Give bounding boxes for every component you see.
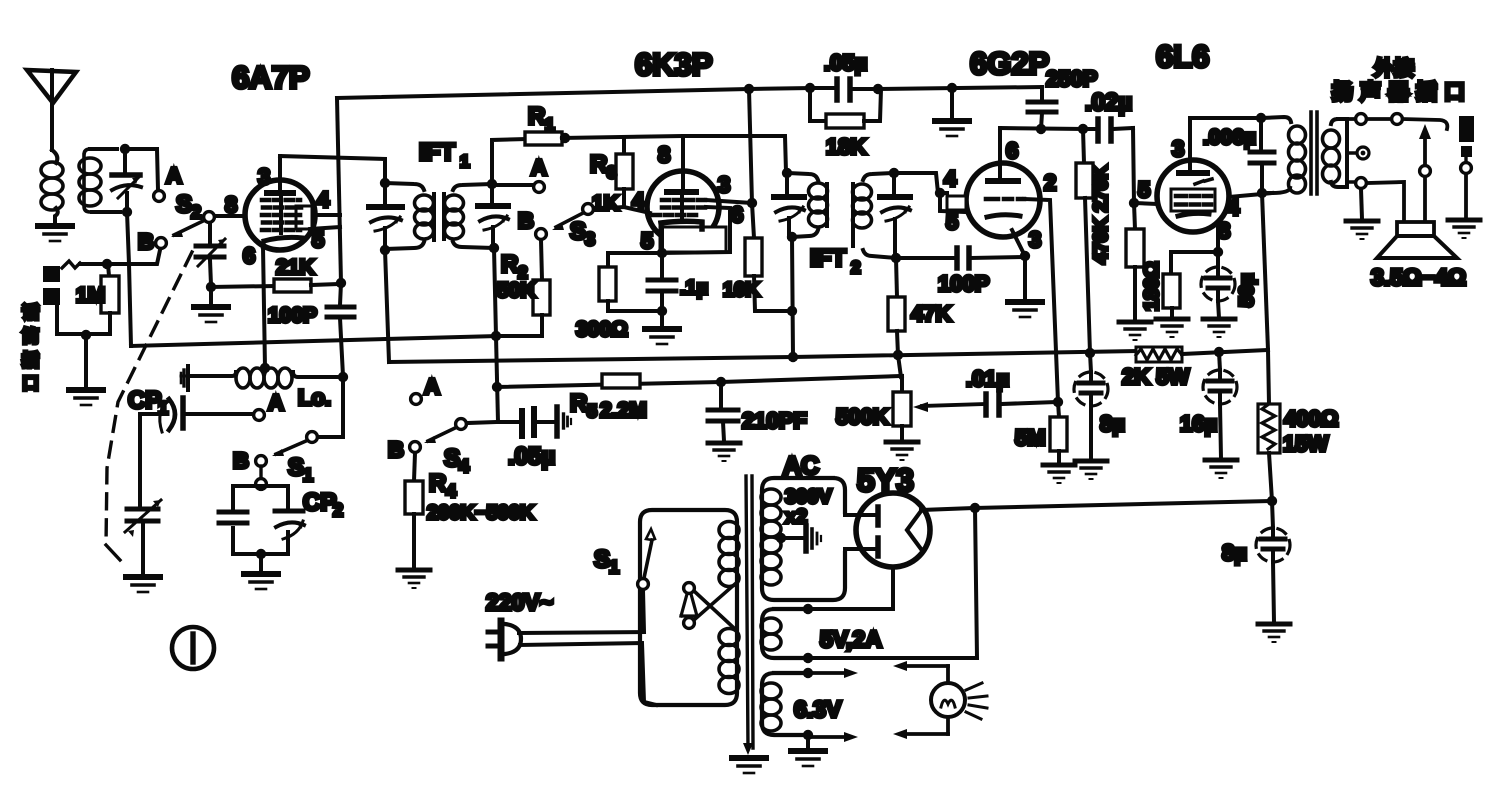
svg-text:3: 3 — [1029, 227, 1041, 252]
svg-text:500K: 500K — [836, 404, 889, 429]
phone jack — [43, 266, 60, 305]
svg-text:S: S — [288, 454, 304, 481]
jack terminal 1 — [1356, 114, 1367, 125]
resistor 47K — [888, 258, 951, 355]
wire B to R2 — [541, 240, 542, 280]
wire pin3 up to .006u node — [1190, 118, 1261, 172]
wire pin2 diode drop — [1024, 199, 1058, 402]
wire HV top to 5Y3 plate1 — [845, 513, 875, 517]
node: B+ takeoff — [970, 503, 980, 513]
ground (CP2) — [244, 554, 278, 589]
wire pin6 to grid line — [998, 128, 1002, 180]
capacitor .006u — [1203, 118, 1274, 193]
node: 10K foot / IFT2 B+ — [787, 306, 797, 316]
switch S2 — [171, 191, 214, 237]
wire coil bottom down to AVC bus — [127, 212, 131, 346]
node IFT2 primary top — [782, 168, 792, 178]
node: AVC / R2 junction — [491, 331, 501, 341]
svg-text:插: 插 — [22, 351, 39, 370]
IFT1 secondary coil — [445, 195, 464, 239]
node: pin3 — [1020, 251, 1030, 261]
ground (180R) — [1156, 319, 1188, 337]
resistor 300R — [576, 253, 662, 341]
node: 6L6 grid — [1129, 198, 1139, 208]
capacitor 8u (screen filter) — [1074, 353, 1125, 459]
wire B+ drop from top bus through pins 4,5 to 21K node — [337, 98, 341, 283]
wire A to IFT1 top — [497, 183, 533, 187]
wire 2K to 400R corner — [1182, 350, 1268, 354]
resistor 21K — [274, 256, 340, 292]
svg-text:300V: 300V — [785, 486, 832, 508]
svg-text:2: 2 — [851, 258, 860, 277]
IFT2 primary tuning cap — [774, 173, 804, 237]
wire B+ to filter — [975, 501, 1272, 508]
terminal B (osc) — [256, 456, 267, 467]
wire AVC node down to S4 — [496, 336, 498, 422]
trimmer pair top terminal — [256, 466, 267, 489]
svg-text:B: B — [388, 437, 404, 462]
svg-text:3: 3 — [607, 163, 616, 182]
svg-text:6: 6 — [731, 202, 743, 227]
tube 6G2P envelope — [966, 163, 1040, 237]
capacitor .05u (coupling, top) — [810, 50, 878, 100]
svg-text:外接: 外接 — [1374, 57, 1414, 80]
symbol circled 1 — [172, 627, 214, 669]
svg-text:S: S — [570, 218, 586, 245]
node: 400R foot / B+ raw — [1267, 496, 1277, 506]
svg-text:6: 6 — [243, 243, 255, 268]
antenna coil L1 — [41, 150, 63, 224]
tube 6G2P internals — [947, 166, 1024, 217]
node: 1M top — [102, 259, 112, 269]
resistor 270K — [1076, 129, 1093, 353]
svg-text:6A7P: 6A7P — [232, 60, 310, 95]
HV secondary frame — [762, 478, 845, 600]
ground (5M) — [1043, 465, 1075, 483]
node: .02u left — [1078, 124, 1088, 134]
svg-text:250P: 250P — [1046, 66, 1097, 91]
mains plug — [488, 621, 521, 658]
capacitor 250P — [1028, 66, 1097, 129]
wire top bus (6A7P to 18K) — [337, 88, 810, 98]
svg-text:3: 3 — [585, 229, 595, 249]
terminal B (AF input) — [410, 442, 421, 453]
output transformer secondary — [1323, 119, 1357, 187]
wire IFT2 primary bottom to B+ bus — [792, 237, 793, 357]
wire CP1 to gang2 — [140, 414, 162, 506]
speaker plug arrow — [1419, 124, 1431, 222]
svg-text:5M: 5M — [1015, 425, 1046, 450]
center tap terminal — [1357, 147, 1369, 159]
svg-text:5: 5 — [1138, 177, 1150, 202]
detector bus (bus-3) — [497, 376, 902, 387]
ground (R4) — [398, 570, 430, 588]
wire 6L6 cathode pin8 — [1216, 228, 1220, 252]
svg-text:4: 4 — [632, 188, 645, 213]
svg-text:CP: CP — [303, 489, 336, 516]
wire IFT2 top to 6G2P grid — [894, 173, 947, 193]
resistor 470K — [1126, 203, 1144, 321]
svg-text:3: 3 — [1172, 136, 1184, 161]
node: 210PF top — [716, 377, 726, 387]
wire S2 to 6A7P pin 8 — [215, 214, 245, 218]
node: 6.3V top — [803, 668, 813, 678]
node: R1 right — [560, 133, 570, 143]
ground (500K) — [886, 442, 918, 460]
svg-text:6: 6 — [1006, 138, 1018, 163]
oscillator gang capacitor under S2 — [196, 223, 225, 285]
HV winding — [761, 489, 781, 585]
wire pin3 to IFT1 primary top — [280, 156, 385, 183]
svg-text:4: 4 — [944, 166, 957, 191]
svg-text:50µ: 50µ — [1236, 273, 1258, 307]
5V winding frame — [762, 609, 808, 658]
tube 6K3P envelope — [647, 171, 719, 243]
node: 6G2P grid — [935, 188, 945, 198]
resistor R5 2.2M — [570, 374, 647, 422]
node: 18K right — [873, 84, 883, 94]
node: CP2 bottom — [256, 549, 266, 559]
node IFT2 secondary top — [889, 168, 899, 178]
resistor 180R — [1141, 252, 1218, 318]
wire R1 node to 6K3P pin8 line — [562, 136, 786, 172]
svg-text:1: 1 — [545, 115, 554, 134]
wire IFT1 primary bottom to B+ bus — [385, 250, 389, 362]
speaker jack top wire — [1347, 119, 1447, 129]
capacitor .1u — [648, 253, 708, 327]
svg-text:2K 5W: 2K 5W — [1122, 364, 1189, 389]
main tuning gang section (RF) — [112, 149, 141, 212]
wire plug to S1 — [519, 590, 644, 633]
antenna — [27, 70, 76, 150]
capacitor CP2 (trimmer) — [275, 489, 343, 539]
svg-text:2: 2 — [1044, 170, 1056, 195]
IFT2 secondary frame — [853, 173, 896, 258]
svg-text:R: R — [501, 251, 518, 278]
tube 6K3P internals — [653, 136, 726, 252]
ground (secondary bottom) — [1346, 189, 1378, 239]
capacitor 100P (diode) — [896, 248, 1025, 296]
svg-text:47K: 47K — [911, 301, 951, 326]
node: osc gang / 21K junction — [206, 282, 216, 292]
power transformer primary frame — [640, 510, 737, 705]
tube 6L6 internals — [1171, 160, 1215, 216]
node IFT1 secondary top — [487, 179, 497, 189]
svg-text:A: A — [268, 390, 284, 415]
wire jack tip row to terminal B / AVC — [80, 250, 160, 264]
6.3V winding — [761, 683, 781, 731]
speaker — [1377, 222, 1457, 258]
wire to terminal A1 — [125, 149, 158, 190]
wire pin 6 down to Lo — [263, 247, 265, 368]
node IFT2 primary bottom — [787, 232, 797, 242]
svg-text:1M: 1M — [76, 284, 105, 307]
IFT1 primary frame — [385, 183, 434, 249]
IFT1 primary tuning cap — [369, 183, 402, 250]
node: coil top junction — [120, 144, 130, 154]
wire pin4 to OPT bottom — [1229, 193, 1272, 197]
ground (antenna coil) — [38, 226, 72, 241]
terminal B (IF) — [536, 229, 547, 240]
svg-text:5V,2A: 5V,2A — [820, 626, 882, 652]
primary lower winding — [719, 629, 739, 694]
pilot lamp — [931, 666, 987, 734]
ground (470K) — [1119, 322, 1151, 340]
node IFT1 primary top — [380, 178, 390, 188]
node: 5V bottom — [803, 653, 813, 663]
svg-text:1: 1 — [303, 465, 313, 485]
svg-text:S: S — [594, 546, 610, 573]
svg-text:Lo.: Lo. — [298, 385, 331, 410]
svg-text:口: 口 — [22, 374, 39, 393]
transformer core — [743, 476, 753, 755]
ground (phone plug) — [1448, 220, 1480, 238]
node: .006u top — [1256, 113, 1266, 123]
svg-text:S: S — [176, 191, 192, 218]
svg-text:470K 270K: 470K 270K — [1090, 165, 1112, 264]
svg-text:100P: 100P — [938, 271, 989, 296]
svg-text:.01µ: .01µ — [966, 366, 1009, 391]
svg-text:R: R — [528, 103, 545, 130]
phone plug symbol — [1459, 116, 1474, 218]
ground (jack/1M) — [69, 335, 103, 405]
switch S1 (mains) — [594, 529, 655, 589]
IFT1 primary coil — [415, 195, 434, 239]
ground (6K3P cathode) — [645, 329, 679, 344]
svg-text:1: 1 — [609, 557, 619, 577]
node: pin3 / screen node — [747, 198, 757, 208]
svg-text:5: 5 — [946, 209, 958, 234]
wire S4 to .05u node — [467, 422, 498, 423]
svg-text:4: 4 — [459, 456, 469, 476]
wire IFT1 sec bottom to AVC node — [494, 248, 496, 336]
svg-text:6.3V: 6.3V — [794, 696, 842, 722]
ground (core) — [732, 758, 766, 773]
grid stub — [940, 193, 966, 212]
node: OPT primary bottom — [1257, 188, 1267, 198]
ground (8u main) — [1258, 624, 1290, 642]
resistor R1 — [525, 103, 562, 145]
wiper arrow with .01u — [913, 366, 1058, 415]
svg-text:5: 5 — [641, 228, 653, 253]
svg-text:IFT: IFT — [810, 245, 846, 272]
svg-text:.1µ: .1µ — [680, 277, 708, 299]
svg-text:220V~: 220V~ — [486, 589, 553, 615]
svg-text:100P: 100P — [268, 304, 317, 327]
svg-text:A: A — [531, 155, 547, 180]
svg-text:2: 2 — [333, 500, 343, 520]
capacitor 50u electrolytic — [1201, 252, 1258, 318]
svg-text:5: 5 — [587, 401, 597, 421]
svg-text:A: A — [424, 374, 440, 399]
node: cathode 6L6 — [1213, 247, 1223, 257]
IFT2 secondary coil — [853, 184, 872, 228]
svg-text:.006µ: .006µ — [1203, 126, 1256, 149]
wire AVC bus (bus-1 left) — [131, 336, 496, 346]
main tuning gang section (osc) — [125, 500, 161, 575]
node: 18K left — [805, 83, 815, 93]
IFT2 primary coil — [809, 183, 828, 227]
terminal A (osc) — [254, 410, 265, 421]
svg-text:CP: CP — [128, 387, 161, 414]
wire pin 5 — [310, 227, 340, 229]
wire pin6 loop to cathode — [662, 207, 730, 253]
IFT2 secondary tuning cap — [880, 173, 910, 258]
wire jack3 to speaker — [1367, 182, 1404, 222]
svg-text:IFT: IFT — [419, 139, 455, 166]
output transformer primary — [1261, 117, 1306, 193]
node: cathode RC bottom — [657, 306, 667, 316]
wire grid line (250P row) — [1000, 128, 1083, 129]
svg-text:16µ: 16µ — [1180, 411, 1217, 436]
wire HV bottom to 5Y3 plate2 — [845, 547, 875, 551]
wire pin 4 — [315, 213, 340, 217]
node: Lo right / 100P — [338, 372, 348, 382]
link bus-2 to bus-3 — [898, 355, 901, 377]
node: jack ground — [81, 330, 91, 340]
svg-text:6G2P: 6G2P — [970, 46, 1049, 81]
svg-text:180Ω: 180Ω — [1141, 262, 1163, 311]
resistor R4 — [405, 453, 535, 568]
resistor 10K — [723, 203, 792, 311]
tube 6L6 envelope — [1157, 160, 1229, 232]
svg-text:8: 8 — [658, 142, 670, 167]
node IFT1 primary bottom — [380, 245, 390, 255]
output transformer core — [1311, 112, 1317, 194]
capacitor .05u (pickup input) — [498, 407, 571, 470]
svg-text:2: 2 — [191, 202, 201, 222]
terminal A (band A, RF) — [154, 191, 165, 202]
node: IFT2 primary on bus — [788, 352, 798, 362]
capacitor 8u (main filter) — [1222, 501, 1290, 622]
jack terminal 2 — [1392, 114, 1403, 125]
svg-text:R: R — [570, 390, 587, 417]
ground (gang2) — [126, 577, 160, 592]
tube 5Y3 envelope — [856, 493, 930, 567]
capacitor CP2 branch frame — [233, 486, 288, 554]
5V winding — [761, 618, 781, 650]
resistor 2K 5W — [1122, 347, 1189, 389]
IFT1 secondary tuning cap — [478, 184, 508, 248]
dashed gang coupling line — [106, 252, 192, 560]
svg-text:400Ω: 400Ω — [1284, 406, 1338, 431]
node IFT1 secondary bottom — [489, 243, 499, 253]
svg-text:4: 4 — [446, 481, 456, 501]
resistor R2 — [497, 251, 550, 336]
jack terminal 3 (bottom) — [1356, 178, 1367, 189]
svg-text:3.5Ω−4Ω: 3.5Ω−4Ω — [1371, 264, 1466, 290]
node: 47K on B+ bus — [893, 350, 903, 360]
node: 6.3V bottom — [803, 730, 813, 740]
voltage selector links — [681, 583, 735, 629]
resistor 5M — [1015, 402, 1067, 463]
svg-text:B: B — [518, 208, 534, 233]
6.3V winding frame — [762, 673, 808, 735]
svg-text:3: 3 — [718, 172, 730, 197]
svg-text:.02µ: .02µ — [1085, 89, 1132, 116]
wire 5Y3 output to B+ — [921, 508, 975, 510]
svg-text:3: 3 — [258, 164, 270, 189]
ground (top center) — [935, 88, 969, 136]
switch S1 (osc band) — [272, 432, 317, 485]
primary upper winding — [719, 522, 739, 587]
svg-text:4: 4 — [317, 187, 330, 212]
svg-text:.05µ: .05µ — [508, 443, 555, 470]
ground (16u) — [1205, 460, 1237, 478]
wire B+ top bus drop to screen node — [749, 89, 752, 203]
node: 21K/100P junction — [336, 278, 346, 288]
wire 5V bottom to B+ node — [808, 508, 977, 658]
svg-text:8µ: 8µ — [1222, 540, 1247, 565]
wire IFT1 sec top to R1 — [492, 139, 525, 184]
capacitor 16u — [1180, 352, 1237, 458]
coil Lo — [181, 366, 343, 410]
ground (50u) — [1203, 319, 1235, 337]
tube 6A7P envelope — [245, 180, 315, 250]
ground (osc gang) — [194, 287, 228, 322]
B+ bus (bus-2) — [389, 351, 1136, 362]
tuning coil loops — [79, 158, 101, 206]
node: screen chain on bus — [1085, 348, 1095, 358]
tube 6A7P internals — [262, 156, 312, 247]
svg-text:R: R — [429, 470, 446, 497]
svg-text:B: B — [233, 448, 249, 473]
node: cathode — [657, 248, 667, 258]
wire cathode down — [660, 228, 664, 253]
svg-text:21K: 21K — [276, 256, 315, 279]
svg-text:R: R — [590, 151, 607, 178]
svg-text:8: 8 — [225, 192, 237, 217]
capacitor fixed (left of CP2) — [219, 512, 247, 523]
svg-text:1K: 1K — [592, 192, 619, 215]
svg-text:AC: AC — [783, 452, 819, 480]
capacitor .02u — [1083, 89, 1133, 141]
svg-text:210PF: 210PF — [742, 408, 807, 433]
wire Lo right down to S1 — [318, 377, 343, 437]
label 话筒插口 (vertical) — [22, 303, 39, 393]
svg-text:1: 1 — [460, 152, 469, 171]
heater feed arrows — [808, 668, 858, 742]
svg-text:18K: 18K — [826, 134, 866, 159]
ground (210PF) — [708, 443, 740, 461]
node: bus-3 left end — [492, 382, 502, 392]
lamp lead arrows — [893, 661, 948, 739]
svg-text:2.2M: 2.2M — [600, 399, 647, 422]
trimmer CP1 — [128, 387, 254, 432]
capacitor 210PF — [708, 382, 807, 441]
wire 5Y3 filament bottom to 5V — [808, 567, 893, 609]
tube 5Y3 internals — [878, 507, 921, 556]
node: center ground tap — [947, 83, 957, 93]
potentiometer 500K — [836, 376, 911, 440]
node IFT2 secondary bottom — [891, 253, 901, 263]
svg-text:B: B — [138, 229, 154, 254]
resistor 1M — [76, 264, 119, 334]
node: Lo top-center / pin6 — [260, 363, 270, 373]
wire junction to 21K — [211, 286, 274, 287]
switch S3 — [552, 204, 595, 249]
wire plug to primary bottom — [520, 643, 656, 705]
node: .01u / 5M — [1053, 397, 1063, 407]
wire pin3 to B+ drop — [706, 200, 752, 203]
ground (6.3V) — [791, 735, 825, 766]
wire top bus (18K to 250P corner) — [878, 87, 1042, 89]
phone jack hook wire — [62, 261, 80, 268]
svg-text:50K: 50K — [497, 279, 536, 302]
terminal A (AF input) — [411, 394, 422, 405]
svg-text:300Ω: 300Ω — [576, 318, 628, 341]
svg-text:S: S — [444, 445, 460, 472]
